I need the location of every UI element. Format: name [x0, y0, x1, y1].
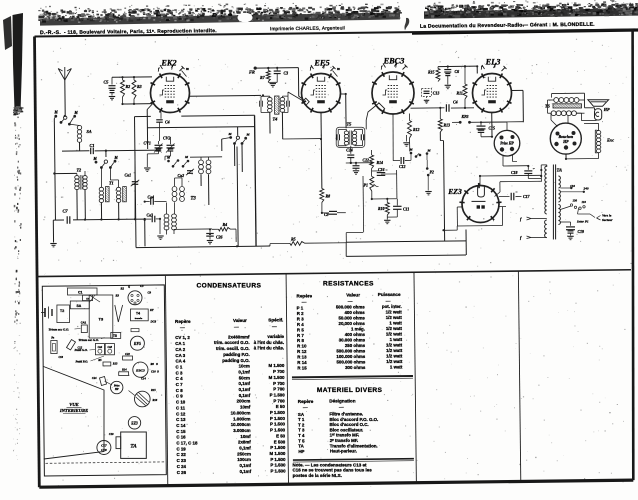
svg-text:Haut-parleur.: Haut-parleur.: [330, 449, 357, 454]
capacitor C17: [499, 192, 531, 200]
svg-text:500.000 ohms: 500.000 ohms: [336, 359, 365, 364]
layout label C14: [141, 377, 146, 381]
svg-text:C22: C22: [125, 353, 130, 356]
layout trimmer CA1: [81, 321, 87, 333]
svg-text:T5: T5: [347, 122, 353, 127]
capacitor C3: [274, 67, 288, 83]
wire HT bus right end: [465, 230, 467, 256]
svg-text:R 5: R 5: [297, 327, 304, 332]
svg-text:Spécif.: Spécif.: [268, 318, 283, 323]
trimmer Ca1: [125, 152, 140, 219]
svg-text:100.000 ohms: 100.000 ohms: [336, 354, 365, 359]
scan black left edge: [3, 13, 23, 460]
svg-text:FR: FR: [249, 70, 255, 75]
capacitor C13 optional dashed: [422, 89, 440, 104]
wire filament f upper: [520, 217, 547, 222]
capacitor C6: [444, 67, 459, 85]
thick rule under resistances: [292, 376, 413, 380]
transformer TA: [541, 164, 562, 239]
layout label R13: [113, 363, 118, 366]
wire C14 node: [346, 162, 372, 164]
svg-text:R 8: R 8: [297, 338, 304, 343]
svg-text:m: m: [186, 67, 189, 71]
svg-text:VUE: VUE: [69, 402, 78, 407]
socket Prise HP: [494, 130, 520, 156]
layout socket EK2: [128, 291, 142, 305]
capacitor C4 liaison: [446, 100, 457, 112]
wire coupling EBC3 to EL3: [411, 107, 475, 109]
svg-text:Repère: Repère: [297, 293, 313, 298]
svg-text:Bloc d'accord P.O. G.O.: Bloc d'accord P.O. G.O.: [329, 417, 378, 422]
svg-text:C 26: C 26: [177, 470, 187, 475]
wire EK2 plate to T4: [189, 94, 265, 96]
svg-text:C 16: C 16: [176, 435, 186, 440]
svg-text:1/2 watt: 1/2 watt: [386, 315, 403, 320]
resistor R10: [378, 198, 389, 215]
svg-text:Repère: Repère: [298, 399, 314, 404]
svg-text:R 13: R 13: [297, 355, 307, 360]
svg-text:CONDENSATEURS: CONDENSATEURS: [197, 282, 262, 289]
svg-text:50.000 ohms: 50.000 ohms: [338, 316, 365, 321]
coil Exc excitation: [595, 130, 614, 153]
svg-text:T5: T5: [113, 334, 117, 338]
svg-text:2x460mmf: 2x460mmf: [228, 334, 250, 339]
svg-text:C14: C14: [346, 149, 353, 153]
coil SA antenna filter: [69, 124, 91, 142]
svg-text:T 2: T 2: [298, 422, 305, 427]
svg-text:C19: C19: [109, 433, 114, 436]
svg-text:trim. accord G.O.: trim. accord G.O.: [214, 340, 250, 345]
svg-text:30.000 ohms: 30.000 ohms: [339, 337, 366, 342]
thick rule under right header: [412, 28, 638, 34]
vertical rule right of resistances column: [414, 272, 416, 481]
svg-text:C4: C4: [165, 120, 170, 125]
layout small box under C1: [83, 295, 93, 300]
svg-text:P2: P2: [430, 171, 434, 175]
trimmer Ca2: [178, 169, 195, 178]
svg-text:250 ohms: 250 ohms: [345, 343, 366, 348]
layout dashed inner bottom: [46, 462, 165, 463]
svg-text:R 3: R 3: [297, 316, 304, 321]
svg-text:Transfo d'alimentation.: Transfo d'alimentation.: [330, 443, 378, 448]
svg-text:P 1.500: P 1.500: [270, 428, 286, 433]
resistor R14: [370, 150, 383, 169]
resistor R7: [260, 67, 270, 82]
wire SW3 stems down: [190, 138, 242, 173]
svg-text:1 watt: 1 watt: [390, 364, 403, 369]
wire EF5 cathode down to R8: [320, 113, 323, 189]
svg-text:0,1mf: 0,1mf: [238, 369, 250, 374]
wire ground bus A: [136, 246, 270, 248]
svg-text:CA 4: CA 4: [175, 359, 185, 364]
svg-text:200cm: 200cm: [237, 399, 251, 404]
svg-text:C7: C7: [63, 209, 69, 214]
svg-text:R 12: R 12: [297, 349, 307, 354]
svg-text:R 14: R 14: [297, 360, 307, 365]
capacitor C4 coupling: [156, 112, 169, 141]
layout socket EBC3: [133, 362, 148, 377]
svg-text:C17: C17: [523, 195, 531, 199]
wire C15 return: [481, 113, 492, 137]
svg-text:C19: C19: [578, 230, 585, 234]
label Secteur: [597, 214, 614, 223]
vertical rule left of condensateurs column: [165, 276, 167, 485]
wire EK2 grid cap diagonal: [147, 104, 152, 149]
layout diag wires: [105, 381, 135, 396]
capacitor Ca4: [145, 196, 167, 205]
layout condensateurs C17 C18: [97, 441, 111, 455]
wire HT bus top: [346, 241, 466, 242]
coil T3 bottom: [164, 202, 176, 234]
svg-text:Padd P.O.: Padd P.O.: [76, 360, 89, 364]
capacitor C1: [90, 143, 95, 154]
svg-text:P 1.500: P 1.500: [270, 416, 286, 421]
ground under C26: [207, 241, 213, 244]
table resistances title: [323, 280, 374, 287]
svg-text:postes de la série NLS.: postes de la série NLS.: [293, 473, 342, 478]
layout socket EZ3: [128, 417, 140, 429]
svg-text:P 1.500: P 1.500: [270, 457, 286, 462]
svg-text:T 3: T 3: [298, 428, 305, 433]
resistor R5: [290, 237, 305, 246]
wire right of tuner down: [144, 219, 146, 247]
ground under C6: [445, 85, 451, 88]
note text: [292, 462, 372, 477]
table materiel rows: [298, 411, 378, 453]
svg-text:T3: T3: [191, 197, 197, 202]
ground EBC3 top area: [403, 135, 409, 146]
svg-text:C 1: C 1: [176, 364, 183, 369]
svg-text:R 10: R 10: [297, 344, 307, 349]
layout condensateur C22: [123, 353, 133, 360]
svg-text:E 50: E 50: [276, 404, 286, 409]
svg-text:Ca4: Ca4: [98, 346, 103, 349]
header middle: Imprimerie CHARLES Argenteuil: [270, 25, 345, 31]
layout transfo T4: [131, 309, 149, 321]
tube EZ3: [457, 183, 506, 223]
wire R7 C3 commons: [268, 81, 277, 84]
wire EK2 screen line: [148, 127, 255, 136]
svg-text:EBC3: EBC3: [135, 369, 145, 373]
svg-text:R16: R16: [153, 399, 158, 402]
svg-text:Exc: Exc: [606, 138, 614, 143]
capacitor C26: [206, 228, 222, 239]
switch voltage selector: [560, 199, 586, 215]
label T3: [191, 197, 197, 202]
capacitor C12: [393, 115, 411, 170]
wire Prise HP bottoms: [503, 155, 528, 166]
transformer T4 MF1: [260, 96, 289, 122]
ground under P2: [425, 192, 431, 195]
svg-text:R12: R12: [413, 128, 420, 132]
svg-text:P 700: P 700: [273, 398, 285, 403]
capacitor C15: [477, 122, 496, 137]
svg-text:500.000 ohms: 500.000 ohms: [336, 348, 365, 353]
svg-text:P 1.500: P 1.500: [270, 422, 286, 427]
capacitor C11 electrolytic: [387, 199, 409, 217]
svg-text:R 4: R 4: [297, 322, 304, 327]
svg-text:Prise: Prise: [114, 384, 120, 387]
wire grid bias rail: [112, 76, 152, 80]
wire EZ3 anode 2: [495, 181, 542, 196]
wire TS to Bouchon: [551, 113, 568, 126]
svg-text:T 1: T 1: [298, 417, 305, 422]
transformer TS: [545, 98, 585, 116]
svg-text:Ca2: Ca2: [178, 173, 185, 178]
svg-text:D.-R.-S.: D.-R.-S.: [40, 30, 61, 36]
layout condensateur C12 diag: [67, 340, 83, 351]
svg-text:P 1.500: P 1.500: [270, 392, 286, 397]
svg-text:2x8mf: 2x8mf: [238, 440, 251, 445]
svg-text:1 watt: 1 watt: [390, 337, 403, 342]
svg-text:240: 240: [583, 186, 589, 190]
svg-text:C26: C26: [216, 236, 223, 240]
resistor R8: [320, 189, 330, 203]
capacitor C19: [560, 222, 584, 236]
svg-text:Q: Q: [128, 286, 130, 289]
svg-text:130: 130: [573, 199, 578, 203]
layout label padd PO: [76, 356, 105, 364]
tube EBC3: [366, 63, 414, 130]
layout tiny bar R9: [131, 329, 139, 332]
ground under C5: [109, 97, 115, 100]
svg-text:R3: R3: [137, 84, 142, 89]
tube EL3: [472, 64, 511, 113]
coil T3 oscillator top: [199, 157, 211, 205]
plug Bouchon HP: [550, 123, 581, 154]
svg-text:pot. inter.: pot. inter.: [382, 304, 402, 309]
vertical rule left of resistances column: [286, 274, 288, 483]
svg-text:0,1mf: 0,1mf: [239, 387, 251, 392]
svg-text:T4: T4: [273, 117, 279, 122]
wire selector to secteur: [578, 214, 596, 218]
svg-text:padding P.O.: padding P.O.: [223, 352, 250, 357]
svg-text:T3: T3: [99, 317, 104, 322]
svg-text:EF5: EF5: [133, 342, 141, 346]
svg-text:C 19: C 19: [176, 446, 186, 451]
svg-text:Puissance: Puissance: [378, 292, 401, 297]
svg-text:SA: SA: [298, 412, 305, 417]
wire under R2 R3: [123, 97, 153, 105]
svg-text:R15: R15: [428, 71, 435, 75]
layout label KT: [149, 309, 154, 312]
wire antenna lead down: [64, 80, 66, 116]
svg-text:C11: C11: [403, 208, 409, 212]
svg-text:EL3: EL3: [485, 58, 501, 67]
svg-text:HP: HP: [114, 388, 119, 391]
svg-text:R15: R15: [151, 389, 156, 392]
svg-text:C18: C18: [511, 171, 518, 175]
table resistances rows: [297, 304, 403, 370]
capacitor Ca3 padding: [145, 214, 160, 235]
svg-text:C 12: C 12: [176, 411, 186, 416]
table materiel header: [298, 398, 356, 407]
switch SW4 liaison: [409, 148, 432, 161]
capacitor C22: [353, 159, 370, 171]
svg-text:1/2 watt: 1/2 watt: [386, 310, 403, 315]
ground under C19: [567, 236, 573, 239]
label EK2: [160, 59, 176, 68]
svg-text:Valeur: Valeur: [233, 318, 247, 323]
resistor R3: [132, 80, 142, 99]
svg-text:EK2: EK2: [160, 59, 176, 68]
svg-text:400 ohms: 400 ohms: [344, 310, 365, 315]
layout condensateur C19: [109, 433, 121, 449]
table resistances header: [297, 292, 401, 302]
svg-text:— Gérant : M. BLONDELLE.: — Gérant : M. BLONDELLE.: [523, 22, 595, 29]
layout prise HP: [111, 381, 123, 393]
wire P1 box: [372, 170, 397, 199]
svg-text:C10: C10: [151, 371, 156, 374]
table materiel divers title: [317, 387, 383, 394]
layout box outline: [42, 285, 166, 476]
svg-text:C 10: C 10: [176, 400, 186, 405]
layout trapezoid chassis: [44, 367, 105, 460]
svg-text:C10: C10: [59, 356, 64, 359]
svg-text:O: O: [157, 371, 159, 374]
layout text VUE INTERIEURE: [59, 402, 88, 414]
svg-text:R14: R14: [377, 161, 384, 165]
svg-text:Ca1: Ca1: [125, 173, 132, 178]
svg-text:1 watt: 1 watt: [389, 321, 402, 326]
svg-text:HP: HP: [603, 107, 610, 112]
layout resistor bar R14: [119, 369, 129, 376]
switch SW2 gammes: [93, 156, 119, 169]
svg-text:C18: C18: [101, 448, 107, 452]
svg-text:C 23: C 23: [177, 458, 187, 463]
svg-text:1/2 watt: 1/2 watt: [386, 332, 403, 337]
variable capacitor CV1: [144, 141, 163, 168]
svg-text:C 15: C 15: [176, 429, 186, 434]
switch P2 contacts: [426, 160, 434, 191]
svg-text:0,1mf: 0,1mf: [240, 463, 252, 468]
svg-text:O: O: [156, 363, 158, 366]
svg-text:Désignation: Désignation: [329, 398, 355, 403]
svg-text:Ca3: Ca3: [108, 346, 113, 349]
svg-text:R2: R2: [126, 84, 131, 89]
svg-text:SA: SA: [77, 304, 82, 308]
wire EZ3 left loop: [444, 207, 503, 231]
label EL3: [485, 58, 501, 67]
svg-text:HP: HP: [298, 449, 304, 454]
layout antenna jack: [41, 307, 52, 319]
svg-text:C5: C5: [104, 80, 109, 85]
svg-text:EF5: EF5: [313, 59, 329, 68]
svg-text:1.000cm: 1.000cm: [233, 416, 250, 421]
svg-text:100cm: 100cm: [237, 457, 251, 462]
svg-text:P 700: P 700: [273, 381, 285, 386]
svg-text:C 17, C 18: C 17, C 18: [176, 441, 198, 446]
scan noise band top-right: [424, 0, 638, 19]
header right: La Documentation du Revendeur-Radio: [420, 22, 595, 30]
svg-text:Bloc oscillateur.: Bloc oscillateur.: [330, 427, 364, 432]
svg-text:Trimm osc G.O.: Trimm osc G.O.: [79, 338, 100, 342]
table condensateurs title: [197, 282, 262, 289]
svg-text:Bouchon: Bouchon: [557, 135, 573, 139]
wire junction down to T2: [105, 151, 107, 157]
layout filtre SA: [70, 301, 89, 309]
wire T3 bottom to R4: [174, 228, 212, 230]
layout labels around EK2: [116, 284, 152, 298]
layout condensateur C10 edge: [51, 337, 64, 360]
svg-text:P 1.500: P 1.500: [270, 445, 286, 450]
wire left drop from T4: [254, 116, 256, 246]
svg-text:R4: R4: [223, 222, 228, 227]
grid cap EF5: [288, 92, 309, 105]
wire HT bus left end: [345, 242, 347, 256]
wire switch to left rail: [54, 116, 56, 220]
svg-text:CA1: CA1: [81, 321, 87, 325]
label EBC3: [383, 57, 405, 66]
svg-text:Vers le: Vers le: [602, 214, 612, 218]
horizontal rule between schematic and tables: [36, 270, 631, 277]
svg-text:C 3: C 3: [176, 370, 183, 375]
svg-text:T 4: T 4: [298, 433, 305, 438]
svg-text:R 2: R 2: [297, 311, 304, 316]
wire TA taps 110 240: [560, 184, 588, 193]
svg-text:C 4: C 4: [176, 376, 183, 381]
table condensateurs rows: [175, 334, 286, 475]
svg-text:Inter P1: Inter P1: [576, 220, 589, 224]
svg-text:C 24: C 24: [177, 464, 187, 469]
svg-text:250cm: 250cm: [237, 451, 251, 456]
svg-text:2ᵉ transfo MF.: 2ᵉ transfo MF.: [330, 438, 359, 443]
transformer T5 MF2: [336, 122, 365, 148]
svg-text:P 1.500: P 1.500: [270, 469, 286, 474]
wire T4 secondary to EF5: [287, 92, 289, 96]
ground under CV1: [144, 168, 150, 171]
layout label padd GO: [75, 348, 96, 352]
svg-text:TA: TA: [298, 444, 304, 449]
svg-text:INTERIEURE: INTERIEURE: [59, 408, 88, 413]
oscillator switch contacts: [166, 155, 189, 168]
svg-text:C3: C3: [284, 71, 289, 76]
svg-text:variable: variable: [267, 334, 284, 339]
svg-text:CV2: CV2: [163, 136, 170, 141]
vertical rule in empty right area: [518, 271, 520, 480]
ground under left rail: [50, 244, 56, 247]
svg-text:P 1.500: P 1.500: [270, 463, 286, 468]
svg-text:C4: C4: [453, 100, 458, 105]
layout transfo TA: [121, 432, 147, 458]
svg-text:T2: T2: [77, 168, 82, 173]
ground under R7 C3: [270, 84, 276, 87]
layout bloc T2: [57, 305, 70, 323]
svg-text:10.000cm: 10.000cm: [231, 422, 251, 427]
potentiometer P1: [364, 171, 379, 191]
svg-text:R 15: R 15: [297, 366, 307, 371]
svg-text:Trimm acc G.O.: Trimm acc G.O.: [49, 328, 70, 332]
scan noise band top-left: [38, 2, 402, 26]
svg-text:C9: C9: [148, 291, 152, 295]
wire R5 to HT rect: [305, 242, 346, 244]
layout label trim accord: [49, 328, 81, 332]
svg-text:P1: P1: [364, 183, 368, 188]
layout bloc T5: [111, 333, 121, 339]
svg-text:C 8: C 8: [176, 388, 183, 393]
capacitor C18: [511, 166, 541, 179]
ground under R10: [384, 215, 390, 224]
svg-text:C12: C12: [399, 165, 406, 169]
svg-text:RESISTANCES: RESISTANCES: [323, 280, 374, 287]
svg-text:à l'int du châs.: à l'int du châs.: [254, 346, 284, 351]
svg-text:CV 1, 2: CV 1, 2: [175, 335, 190, 340]
resistor R4: [212, 222, 236, 242]
label EF5: [313, 59, 329, 68]
resistor R2: [121, 80, 131, 97]
terminal FR: [249, 67, 257, 75]
wire left rail to ground: [52, 220, 54, 242]
